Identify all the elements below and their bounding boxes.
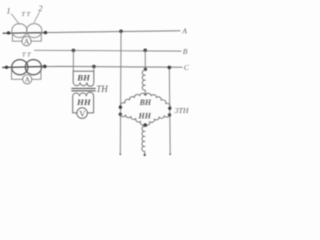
secondary loop wire TT2: [12, 68, 41, 80]
bus B line: [35, 49, 182, 52]
leader line for 1: [12, 14, 20, 24]
3TH HV phase-B vertical winding: [142, 70, 145, 94]
3TH LV right winding: [145, 115, 169, 125]
bus C dark segment through TT2: [3, 66, 46, 67]
wire from B down to 3TH winding: [144, 50, 146, 69]
node dot below C on B wire: [144, 68, 147, 71]
current transformer TT1 circle left: [12, 24, 27, 38]
wire from C down to TH: [93, 67, 95, 72]
svg-text:V: V: [79, 109, 86, 119]
star point dot 3TH HV: [144, 93, 146, 95]
bus C line: [3, 66, 182, 67]
wire from B down to TH: [72, 50, 74, 71]
current transformer TT2 circle left: [12, 60, 28, 75]
svg-text:BH: BH: [139, 98, 152, 107]
voltmeter V: [77, 108, 88, 119]
3TH HV left slanted winding: [120, 93, 145, 107]
ammeter A1: [22, 37, 31, 46]
current transformer TT2 circle right: [25, 60, 41, 75]
secondary loop wire TT1: [12, 33, 41, 41]
svg-text:B: B: [183, 47, 188, 56]
LV star junction dot: [143, 123, 147, 127]
svg-text:3TH: 3TH: [174, 106, 189, 115]
3TH HV right slanted winding: [146, 93, 170, 108]
TH LV winding box (HH): [73, 92, 94, 113]
svg-text:HH: HH: [76, 97, 92, 107]
star dot right HH: [168, 113, 171, 116]
node dot on C for TH: [92, 65, 96, 69]
TH HV winding box (BH): [73, 71, 94, 86]
winding end blob: [144, 154, 146, 156]
node dot left of TT1: [7, 31, 10, 34]
svg-text:TH: TH: [96, 84, 108, 94]
svg-text:A: A: [24, 37, 30, 46]
svg-text:1: 1: [7, 7, 11, 16]
svg-text:A: A: [25, 75, 31, 84]
3TH LV left winding: [120, 114, 145, 125]
svg-text:HH: HH: [138, 111, 152, 120]
right lead end: [169, 153, 171, 155]
node dot on B for TH: [72, 49, 76, 53]
svg-text:BH: BH: [76, 73, 91, 83]
node dot left of TT2: [5, 66, 8, 69]
node dot on A for 3TH: [119, 30, 123, 34]
node dot on C for 3TH: [168, 66, 172, 70]
node dot right of TT2: [43, 65, 47, 69]
node dot right of TT1: [44, 31, 47, 34]
star dot left HH: [119, 113, 122, 116]
wire from A down left side of 3TH: [119, 31, 122, 154]
left lead end: [119, 153, 121, 155]
current transformer TT1 circle right: [27, 24, 42, 38]
star dot left BH: [119, 106, 122, 109]
TH core lines: [72, 87, 96, 89]
bus A line: [3, 31, 180, 34]
node dot on B for 3TH: [143, 49, 147, 53]
bus A dark segment through TT1: [3, 32, 47, 35]
svg-text:TT: TT: [22, 52, 32, 59]
svg-text:TT: TT: [21, 11, 31, 18]
leader line for 2: [34, 12, 40, 23]
star dot right BH: [168, 107, 171, 110]
svg-text:A: A: [181, 27, 187, 36]
wire from C down right side of 3TH: [168, 67, 171, 154]
3TH LV bottom vertical winding: [142, 126, 145, 153]
svg-text:2: 2: [39, 4, 43, 13]
svg-text:C: C: [184, 63, 190, 72]
ammeter A2: [23, 75, 32, 84]
